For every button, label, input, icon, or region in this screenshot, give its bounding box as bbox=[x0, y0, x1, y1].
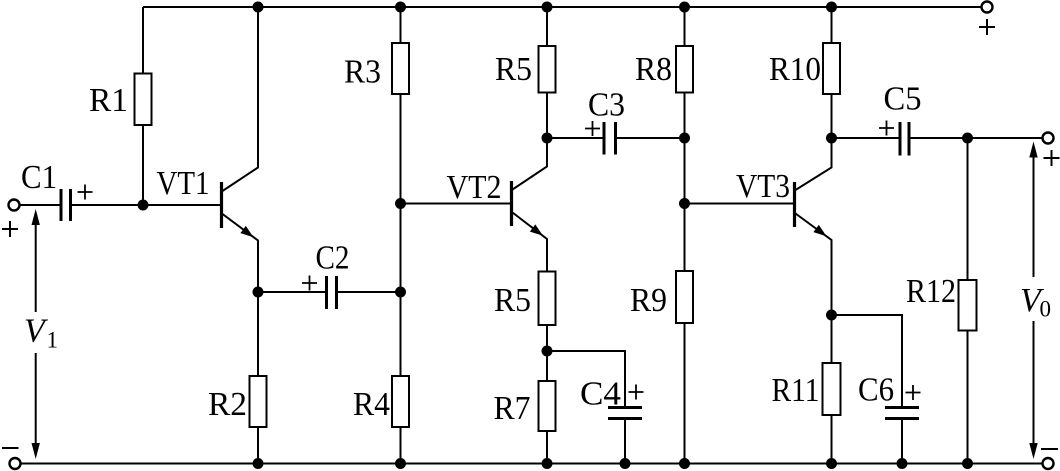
wire C2 to R3R4 column bbox=[337, 291, 401, 293]
svg-text:R12: R12 bbox=[906, 273, 956, 310]
resistor R8 bbox=[676, 46, 693, 93]
wire C4 bottom lead bbox=[624, 419, 626, 464]
node VT2 base x400.5 y203.5 bbox=[395, 198, 406, 209]
source V1 arrow shaft upper bbox=[35, 224, 37, 312]
arrow VT1 emitter bbox=[240, 226, 253, 237]
transistor VT2 base bar bbox=[510, 181, 513, 226]
plus top-right terminal bbox=[979, 19, 995, 35]
node C3 right x684.5 y138 bbox=[679, 133, 690, 144]
wire C1 to VT1 base bbox=[71, 204, 221, 206]
resistor R7 bbox=[539, 381, 556, 431]
resistor R3 bbox=[392, 43, 409, 94]
minus bottom-right bbox=[1041, 448, 1058, 450]
terminal top-right bbox=[982, 2, 993, 13]
node bottom rail x831.5 bbox=[826, 458, 837, 469]
wire R5 emitter to R7 bbox=[546, 325, 548, 381]
resistor R10 bbox=[823, 43, 840, 94]
node VT2 collector x547 y138 bbox=[542, 133, 553, 144]
node C2 right x400.5 y292 bbox=[395, 287, 406, 298]
plus C3 bbox=[585, 121, 600, 136]
svg-text:C1: C1 bbox=[21, 159, 57, 196]
wire VT1 emitter bbox=[223, 214, 259, 292]
svg-text:R11: R11 bbox=[772, 372, 820, 409]
wire bottom ground rail bbox=[21, 463, 1043, 465]
node VT3 collector x831.5 y138 bbox=[826, 133, 837, 144]
svg-text:VT1: VT1 bbox=[157, 165, 210, 202]
wire VT3 base bbox=[685, 203, 794, 205]
svg-text:VT2: VT2 bbox=[447, 169, 502, 206]
transistor VT3 base bar bbox=[793, 182, 796, 227]
node top rail x831.5 bbox=[826, 2, 837, 13]
svg-text:C4: C4 bbox=[580, 376, 621, 413]
svg-text:R5: R5 bbox=[495, 51, 532, 88]
svg-text:C5: C5 bbox=[884, 81, 922, 118]
plus input terminal bbox=[2, 221, 18, 237]
wire C5 to output terminal bbox=[909, 137, 1043, 139]
wire C6 bottom lead bbox=[901, 419, 903, 464]
arrow VT2 emitter bbox=[530, 224, 543, 235]
svg-text:R1: R1 bbox=[89, 82, 128, 119]
source V1 arrowhead up bbox=[32, 209, 40, 225]
svg-text:C2: C2 bbox=[316, 240, 350, 277]
node VT3 emitter x831.5 y315 bbox=[826, 310, 837, 321]
node bottom rail x400.5 bbox=[395, 458, 406, 469]
capacitor C2 bbox=[327, 276, 337, 309]
plus C6 bbox=[906, 385, 921, 400]
wire input to C1 bbox=[20, 204, 62, 206]
wire R8 to node column bbox=[684, 93, 686, 272]
transistor VT1 base bar bbox=[220, 182, 223, 228]
wire collector node to C3 bbox=[547, 137, 604, 139]
resistor R5 (top) bbox=[539, 46, 556, 93]
capacitor C5 bbox=[900, 122, 909, 156]
wire emitter node to C2 bbox=[258, 291, 327, 293]
node VT1 emitter x258 y292 bbox=[253, 287, 264, 298]
node output x967.5 y138 bbox=[962, 133, 973, 144]
wire R8 top lead bbox=[684, 7, 686, 46]
svg-text:C3: C3 bbox=[588, 87, 625, 124]
wire node to C4 bbox=[547, 351, 625, 408]
plus C5 bbox=[879, 121, 894, 136]
wire VT3 emitter bbox=[796, 214, 832, 316]
svg-text:R9: R9 bbox=[630, 282, 667, 319]
node bottom rail x967.5 bbox=[962, 458, 973, 469]
plus C2 bbox=[302, 276, 317, 291]
capacitor C1 bbox=[61, 189, 71, 221]
capacitor C4 bbox=[608, 408, 642, 419]
resistor R9 bbox=[676, 271, 693, 323]
svg-text:1: 1 bbox=[47, 328, 59, 353]
wire emitter node to C6 bbox=[832, 315, 903, 408]
output V0 arrow shaft lower bbox=[1033, 321, 1035, 446]
resistor R11 bbox=[823, 363, 841, 415]
capacitor C6 bbox=[885, 408, 919, 419]
plus output terminal bbox=[1044, 150, 1060, 166]
wire R2 top lead bbox=[257, 292, 259, 376]
node bottom rail x547 bbox=[542, 458, 553, 469]
minus bottom-left bbox=[2, 447, 19, 449]
wire R7 bottom lead bbox=[546, 431, 548, 464]
node bottom rail x684.5 bbox=[679, 458, 690, 469]
node emitter divider x547 y351 bbox=[542, 346, 553, 357]
node bottom rail x625 bbox=[620, 458, 631, 469]
wire R12 bottom lead bbox=[967, 331, 969, 464]
svg-text:R2: R2 bbox=[208, 386, 247, 423]
svg-text:R4: R4 bbox=[353, 386, 390, 423]
svg-text:R8: R8 bbox=[635, 51, 672, 88]
wire R12 top lead bbox=[967, 138, 969, 280]
node top rail x684.5 bbox=[679, 2, 690, 13]
wire R4 bottom lead bbox=[400, 427, 402, 464]
node bottom rail x258 bbox=[253, 458, 264, 469]
wire collector node to C5 bbox=[832, 137, 901, 139]
svg-text:R3: R3 bbox=[344, 54, 381, 91]
node top rail x547 bbox=[542, 2, 553, 13]
terminal bottom-right bbox=[1043, 458, 1054, 469]
source V1 arrowhead down bbox=[32, 443, 40, 459]
node VT3 base x684.5 y203.5 bbox=[679, 198, 690, 209]
wire C3 to R8R9 column bbox=[616, 137, 685, 139]
wire VT2 emitter bbox=[513, 213, 548, 272]
wire R1 bottom lead bbox=[142, 125, 144, 205]
svg-text:R5: R5 bbox=[494, 282, 531, 319]
node bottom rail x902 bbox=[897, 458, 908, 469]
svg-text:C6: C6 bbox=[858, 372, 894, 409]
svg-text:R10: R10 bbox=[769, 51, 821, 88]
svg-text:0: 0 bbox=[1040, 297, 1052, 322]
output V0 arrow shaft upper bbox=[1033, 156, 1035, 277]
wire R9 bottom lead bbox=[684, 323, 686, 464]
wire R11 top lead bbox=[831, 315, 833, 363]
output V0 arrowhead up bbox=[1029, 142, 1037, 158]
resistor R5 (emitter, second R5) bbox=[539, 272, 556, 326]
output V0 arrowhead down bbox=[1029, 443, 1037, 459]
wire VT3 collector bbox=[796, 138, 832, 190]
terminal bottom-left bbox=[10, 458, 21, 469]
wire R3 top lead bbox=[400, 7, 402, 43]
resistor R1 bbox=[135, 74, 152, 126]
terminal output right bbox=[1043, 133, 1054, 144]
capacitor C3 bbox=[604, 122, 616, 155]
resistor R4 bbox=[392, 376, 409, 427]
wire R2 bottom lead bbox=[257, 427, 259, 464]
svg-text:R7: R7 bbox=[494, 390, 531, 427]
wire VT2 base bbox=[401, 203, 511, 205]
resistor R12 bbox=[959, 280, 977, 331]
wire R10 to collector node bbox=[831, 94, 833, 138]
wire R10 top lead bbox=[831, 7, 833, 43]
plus C1 bbox=[78, 185, 93, 200]
svg-text:VT3: VT3 bbox=[736, 168, 790, 205]
plus C4 bbox=[629, 385, 644, 400]
wire R11 bottom lead bbox=[831, 415, 833, 464]
wire VT2 collector bbox=[513, 138, 548, 190]
node input x143 bbox=[138, 200, 149, 211]
wire top supply rail bbox=[143, 6, 981, 8]
wire VT1 collector bbox=[223, 7, 259, 191]
wire R3 to VT2 base node and down bbox=[400, 94, 402, 376]
wire R5 top lead bbox=[546, 7, 548, 46]
terminal input bbox=[9, 200, 20, 211]
arrow VT3 emitter bbox=[813, 225, 826, 236]
node top rail x400.5 bbox=[395, 2, 406, 13]
resistor R2 bbox=[250, 376, 267, 427]
source V1 arrow shaft lower bbox=[35, 353, 37, 446]
wire R1 top lead from rail bbox=[142, 7, 144, 74]
node top rail x258 bbox=[253, 2, 264, 13]
wire R5 to collector node bbox=[546, 93, 548, 139]
